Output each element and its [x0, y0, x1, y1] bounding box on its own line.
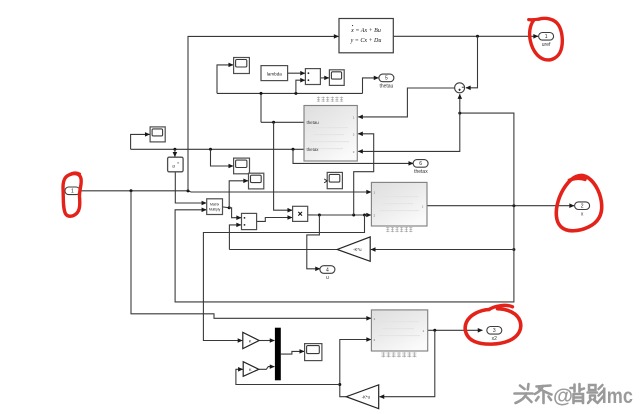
- svg-text:lambda: lambda: [267, 71, 283, 76]
- node junction A (r branch): [130, 189, 133, 192]
- svg-text:x = Ax + Bu: x = Ax + Bu: [350, 28, 381, 34]
- wire dotprodB out to product in2: [257, 218, 293, 222]
- svg-text:Multiply: Multiply: [209, 207, 221, 211]
- svg-text:u: u: [326, 275, 329, 281]
- svg-text:y = Cx + Du: y = Cx + Du: [350, 38, 382, 44]
- open input port of scope 3: [324, 179, 327, 183]
- node junction u fb: [363, 214, 366, 217]
- gain K (upper compare): [243, 332, 259, 348]
- scope scope 1b (thetax): [150, 127, 165, 142]
- port outport 1 uref: [539, 33, 554, 49]
- svg-text:thetax: thetax: [414, 169, 428, 175]
- wire x out to outport2: [427, 205, 574, 207]
- wire sum out to module in1: [358, 88, 454, 117]
- wire thetau to product in1: [274, 122, 293, 210]
- wire thetau to dotprodA in2: [296, 80, 305, 93]
- scope scope 2b: [249, 173, 264, 189]
- wire bottom gain out: [340, 340, 371, 397]
- svg-text:2: 2: [581, 204, 584, 210]
- port outport 2 x: [575, 202, 590, 218]
- svg-text:3: 3: [493, 328, 496, 334]
- wire u2 to gain2: [236, 369, 340, 384]
- wire thetau to scope1: [217, 65, 233, 94]
- wire u net: [308, 214, 371, 216]
- wire mid gain out: [229, 249, 337, 251]
- port outport 5 thetau: [379, 74, 394, 90]
- red circle annotation around outport 2 (x): [556, 175, 601, 230]
- module port numbers: [353, 115, 355, 153]
- node junction thetau bus L: [260, 92, 263, 95]
- wire thetau exit: [261, 121, 304, 123]
- sum block: [455, 83, 465, 93]
- node junction thetau/x-in1: [272, 121, 275, 124]
- mux: [275, 328, 281, 381]
- wire mux out to scope4: [281, 351, 304, 354]
- node junction u module: [352, 214, 355, 217]
- svg-text:-K*u: -K*u: [362, 394, 371, 399]
- wire thetau bus: [217, 92, 363, 94]
- label title plant model 1 (tiny CJK): [381, 352, 416, 357]
- node junction B (r branch): [187, 189, 190, 192]
- svg-text:Matrix: Matrix: [210, 202, 220, 206]
- wire MM to dotprodB in1: [229, 208, 241, 218]
- wire uref to sum right: [466, 36, 478, 88]
- subsystem adaptive law module: [304, 106, 357, 162]
- svg-text:5: 5: [385, 76, 388, 82]
- node junction thetau bus R: [294, 92, 297, 95]
- port outport 3 x2: [487, 327, 502, 343]
- red circle annotation around outport 3 (x2): [465, 309, 521, 344]
- wire x to mid gain: [371, 249, 514, 251]
- wire aT out to MM in1: [175, 172, 206, 203]
- wire r jB to plant1 in1: [188, 191, 371, 192]
- wire x down to aT path: [175, 206, 514, 302]
- matrix multiply block: [207, 199, 223, 215]
- wire r to jA/jB: [80, 190, 188, 192]
- gain K 1 (lower compare): [243, 362, 259, 377]
- wire dotprodA out to scopeT: [320, 77, 329, 79]
- svg-text:K: K: [249, 367, 252, 372]
- wire x up right side: [460, 113, 514, 206]
- svg-text:1: 1: [545, 34, 548, 40]
- port outport 6 thetax: [413, 160, 428, 176]
- wire lambda out: [288, 72, 305, 74]
- plant2 port numbers: [374, 317, 425, 342]
- node junction x2: [433, 329, 436, 332]
- node junction uref/sum: [476, 35, 479, 38]
- wire thetax exit: [131, 148, 305, 150]
- svg-text:4: 4: [326, 267, 329, 273]
- gain -K*u (state feedback): [337, 237, 370, 261]
- red circle annotation around outport 1 (uref): [530, 18, 563, 60]
- constant lambda: [261, 66, 288, 81]
- dot product block A: [305, 69, 320, 85]
- wire u to module in2: [354, 134, 374, 215]
- watermark: bei glyph: [571, 384, 585, 403]
- svg-text:1: 1: [71, 189, 74, 195]
- watermark: ying glyph: [588, 385, 605, 403]
- gain -K*u 1 (bottom feedback): [346, 385, 379, 409]
- wire thetax to scope2a: [211, 149, 234, 166]
- wire gain1 out to mux: [259, 340, 274, 342]
- wire thetau to outport5: [363, 78, 379, 94]
- wire uref net: [393, 35, 538, 37]
- subsystem plant model (controlled object): [371, 182, 427, 226]
- node junction u out4: [318, 214, 321, 217]
- scope scope 3 (floating): [327, 172, 342, 188]
- svg-text:-K*u: -K*u: [353, 247, 362, 252]
- port inport 1: [65, 187, 80, 195]
- label title plant model (tiny CJK): [386, 227, 412, 232]
- svg-text:thetax: thetax: [307, 147, 320, 152]
- wire thetax to scope1b: [131, 134, 150, 149]
- dot product block B: [242, 213, 257, 229]
- state-space block (reference model): [339, 19, 393, 53]
- svg-text:thetau: thetau: [379, 84, 393, 90]
- wire x2 down to bottom gain: [380, 330, 435, 396]
- wire gain u to dotprodB in2: [229, 225, 241, 250]
- wire gain2 out to mux: [259, 367, 275, 370]
- wire thetax to aT: [174, 149, 176, 156]
- wire u feedback down: [203, 215, 364, 341]
- scope scope T (lambda): [329, 70, 344, 86]
- math function u^T: [168, 157, 184, 172]
- scope scope 2a: [234, 158, 250, 174]
- red circle annotation around inport 1: [63, 174, 81, 217]
- wire thetax to outport6: [293, 149, 413, 163]
- scope scope 4 (mux): [305, 344, 322, 361]
- node junction MM out: [228, 206, 231, 209]
- svg-text:lmc: lmc: [602, 385, 633, 409]
- node junction x upper: [458, 112, 461, 115]
- node junction u2: [338, 383, 341, 386]
- wire x to module in3: [358, 113, 460, 151]
- watermark: tiao glyph: [535, 386, 552, 404]
- scope scope 1 (thetau): [234, 58, 250, 74]
- node junction x main: [512, 204, 515, 207]
- product block: [293, 206, 308, 221]
- svg-text:x2: x2: [492, 336, 498, 342]
- plant1 port numbers: [374, 191, 424, 218]
- port outport 4 u: [320, 266, 335, 282]
- svg-text:K: K: [249, 338, 252, 343]
- wire x2 to outport3: [428, 329, 483, 331]
- label title adaptive law module (tiny CJK): [317, 97, 343, 102]
- wire u to outport4: [307, 215, 320, 269]
- svg-text:thetau: thetau: [307, 120, 320, 125]
- node junction thetax out6: [292, 148, 295, 151]
- wire MM out: [223, 206, 230, 209]
- wire x to sum bottom: [459, 94, 461, 113]
- wire r up to state-space: [188, 36, 339, 190]
- svg-text:6: 6: [419, 161, 422, 167]
- node junction thetax aT: [173, 148, 176, 151]
- wire r to plant2 in1: [131, 191, 371, 318]
- watermark: tou glyph: [515, 384, 533, 403]
- wire thetau riser: [260, 93, 262, 122]
- wire MM to scope2b: [229, 181, 248, 208]
- node junction x to gain: [512, 248, 515, 251]
- node junction thetax scope2a: [209, 148, 212, 151]
- subsystem plant model 1 (controlled object 1): [371, 310, 427, 351]
- svg-text:uref: uref: [542, 42, 551, 48]
